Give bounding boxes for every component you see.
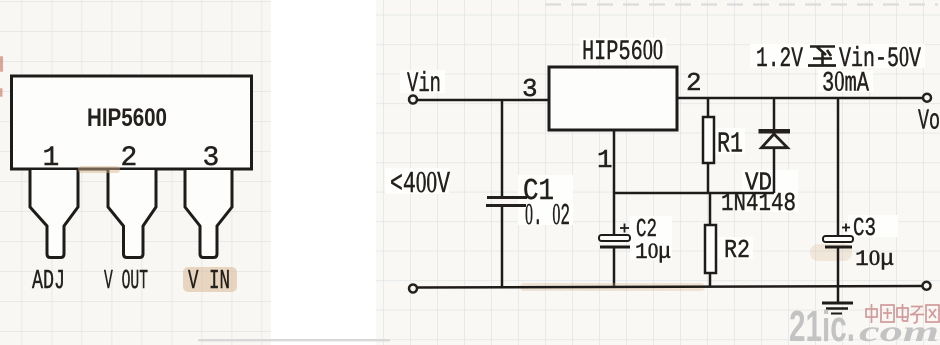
plus sign C3 [842, 224, 850, 232]
package pin 3 lead [185, 170, 232, 258]
svg-text:30mA: 30mA [822, 67, 869, 100]
label VD [745, 168, 772, 198]
pin name V OUT [104, 267, 148, 297]
output terminal node [923, 94, 931, 102]
faint cropped line top edge [545, 3, 938, 5]
svg-text:2: 2 [686, 68, 702, 98]
red scan marks left edge [0, 56, 3, 97]
svg-text:Vo: Vo [918, 105, 940, 138]
label 3 (IC pin) [522, 74, 538, 104]
label Vin-50V [839, 42, 921, 75]
highlight smudge behind V IN [183, 267, 237, 292]
svg-text:R1: R1 [717, 128, 743, 161]
label 1.2V [756, 44, 803, 75]
bottom-left grey streak [198, 339, 390, 341]
label 至 (drawn glyph) [808, 47, 836, 66]
label C3 [853, 213, 876, 243]
label Vo [918, 105, 940, 138]
svg-text:1.2V: 1.2V [756, 44, 803, 75]
resistor R1 [703, 117, 714, 163]
pin number 2 (package) [121, 143, 138, 174]
label 1N4148 [721, 188, 796, 218]
paper whiteout patches [385, 38, 925, 260]
wire C1 to bottom rail [501, 207, 504, 287]
label 10u (C2) [635, 238, 671, 265]
highlight smudge near pin2 top [78, 166, 120, 173]
wire R2 top [709, 193, 712, 225]
wire VD top [773, 98, 776, 129]
graph paper left [0, 0, 271, 345]
diode VD 1N4148 [759, 129, 791, 148]
input terminal node [409, 96, 417, 104]
IC package label HIP5600 [87, 104, 167, 132]
svg-text:2: 2 [121, 143, 138, 174]
svg-text:HIP5600: HIP5600 [582, 35, 663, 68]
bottom right terminal node [923, 282, 931, 290]
wire IC pin1 down [613, 130, 616, 193]
plus sign C2 [620, 224, 629, 233]
svg-text:0. 02: 0. 02 [525, 196, 570, 234]
wire C2 bottom [613, 248, 616, 287]
tan smudge on bottom rail [520, 283, 705, 291]
svg-text:HIP5600: HIP5600 [87, 104, 167, 132]
svg-text:3: 3 [522, 74, 538, 104]
wire input to IC pin3 [416, 99, 549, 102]
package pin 2 lead [108, 170, 156, 258]
svg-text:R2: R2 [724, 235, 750, 265]
tan smudge near C3 [810, 244, 852, 261]
pin number 3 (package) [203, 143, 220, 174]
svg-text:V OUT: V OUT [104, 267, 148, 297]
wire output rail from pin2 [677, 97, 922, 100]
watermark com script [859, 315, 939, 345]
svg-text:V IN: V IN [188, 267, 230, 297]
label <400V [390, 164, 450, 202]
wire C1 branch down [501, 100, 504, 196]
resistor R2 [705, 225, 716, 273]
label C1 [523, 174, 554, 209]
pin number 1 (package) [43, 143, 60, 174]
watermark 中国电子网 (drawn) [866, 304, 939, 323]
svg-text:1: 1 [597, 145, 613, 175]
svg-text:10μ: 10μ [855, 245, 894, 272]
wire R2 bottom [709, 273, 712, 287]
svg-text:21ic.: 21ic. [789, 302, 855, 345]
label C2 [636, 214, 657, 244]
wire C2 top [613, 193, 616, 235]
wire R1 top [707, 98, 710, 117]
graph paper right [376, 0, 940, 345]
wire C3 bottom [837, 248, 840, 287]
capacitor C3 (electrolytic) [823, 236, 853, 247]
label 1 (IC pin) [597, 145, 613, 175]
IC U1 HIP5600 box [549, 67, 677, 130]
IC package body U1 outline [12, 76, 252, 169]
label 2 (IC pin) [686, 68, 702, 98]
pin name V IN [188, 267, 230, 297]
label 30mA [822, 67, 869, 100]
wire feedback node (pin1 to VD bottom) [614, 192, 774, 195]
bottom left terminal node [409, 285, 417, 293]
bottom rail wire [416, 286, 922, 288]
label R1 [717, 128, 743, 161]
svg-text:<400V: <400V [390, 164, 450, 202]
watermark 21ic [789, 302, 855, 345]
svg-text:ADJ: ADJ [32, 267, 65, 297]
wire VD bottom [773, 148, 776, 193]
label R2 [724, 235, 750, 265]
pin name ADJ [32, 267, 65, 297]
wire C3 branch down [837, 98, 840, 236]
capacitor C2 (electrolytic) [599, 235, 630, 247]
label Vin [407, 69, 441, 100]
label HIP5600 (schematic) [582, 35, 663, 68]
ground symbol [822, 287, 853, 314]
wire R1 bottom [707, 163, 710, 193]
svg-text:1: 1 [43, 143, 60, 174]
svg-text:3: 3 [203, 143, 220, 174]
svg-text:C3: C3 [853, 213, 876, 243]
capacitor C1 [486, 198, 527, 206]
label 10u (C3) [855, 245, 894, 272]
package pin 1 lead [30, 170, 78, 258]
svg-text:10μ: 10μ [635, 238, 671, 265]
label 0.02 [525, 196, 570, 234]
